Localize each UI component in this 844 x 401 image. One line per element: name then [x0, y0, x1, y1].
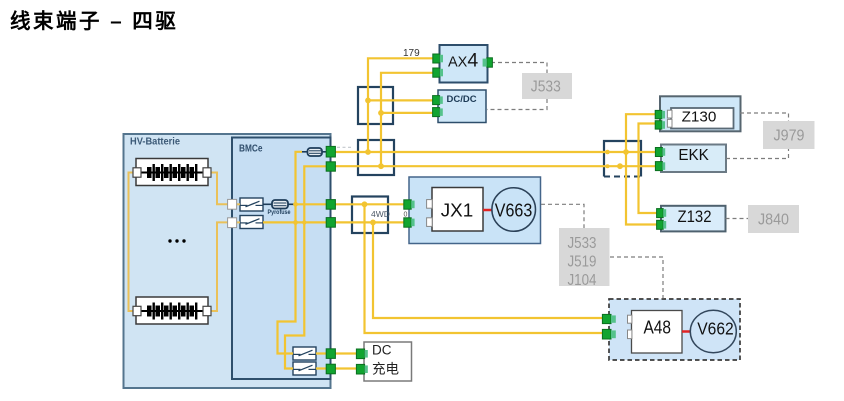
svg-text:4WD: 4WD [371, 209, 390, 219]
svg-text:Z130: Z130 [682, 108, 717, 125]
svg-text:BMCe: BMCe [239, 143, 263, 155]
svg-text:DC: DC [372, 343, 392, 358]
svg-text:Pyrofuse: Pyrofuse [268, 209, 291, 216]
svg-text:JX1: JX1 [441, 200, 474, 220]
svg-text:J840: J840 [758, 212, 789, 229]
svg-text:J533: J533 [531, 78, 561, 95]
svg-text:V662: V662 [697, 318, 734, 338]
svg-text:J979: J979 [774, 128, 805, 145]
svg-text:线束端子 – 四驱: 线束端子 – 四驱 [10, 9, 178, 33]
svg-text:0: 0 [404, 212, 408, 219]
svg-text:DC/DC: DC/DC [447, 94, 477, 105]
svg-text:充电: 充电 [372, 362, 399, 377]
svg-text:J104: J104 [568, 272, 597, 289]
svg-text:Z132: Z132 [678, 208, 712, 226]
svg-text:J533: J533 [568, 235, 597, 252]
svg-text:A48: A48 [643, 318, 671, 338]
svg-text:EKK: EKK [678, 147, 709, 164]
svg-text:HV-Batterie: HV-Batterie [130, 136, 180, 148]
svg-text:V663: V663 [495, 201, 533, 221]
svg-text:J519: J519 [568, 253, 597, 270]
svg-text:179: 179 [403, 48, 420, 59]
